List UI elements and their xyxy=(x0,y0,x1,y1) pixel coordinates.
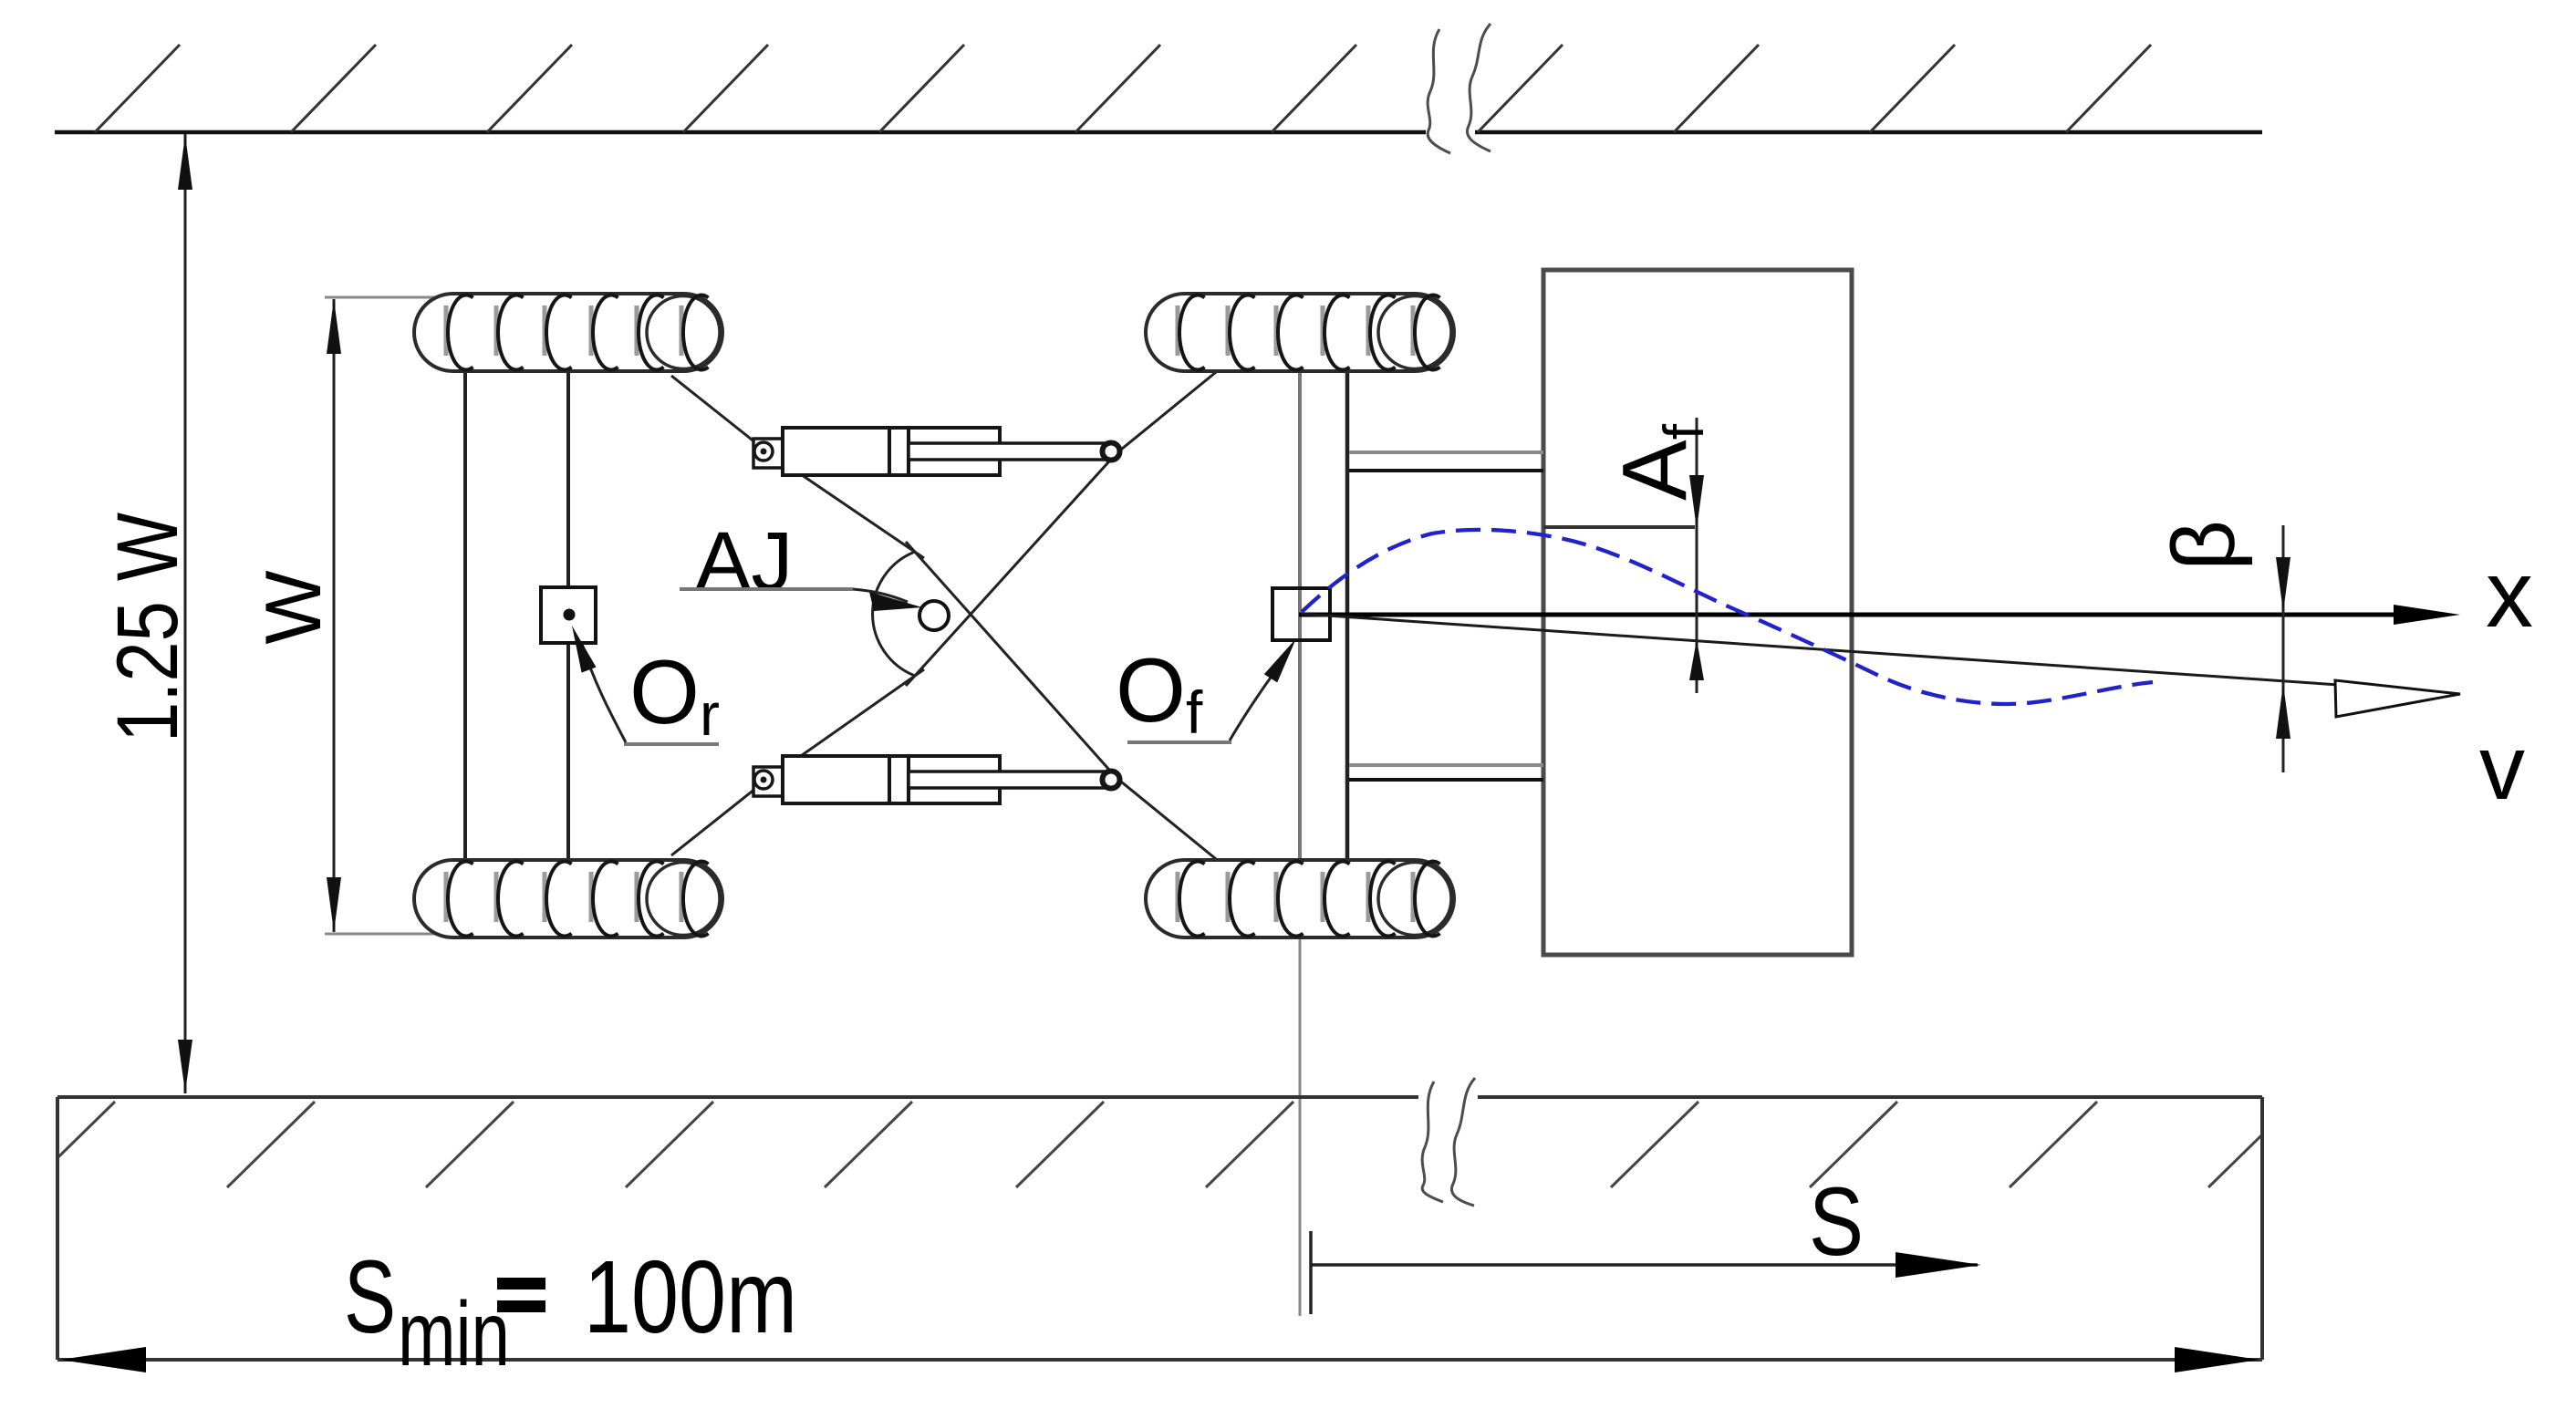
top wall hatching xyxy=(95,45,2151,132)
front frame rail bottom xyxy=(906,542,1220,863)
AJ underline xyxy=(680,587,853,591)
tire front bottom xyxy=(1146,860,1454,937)
S_min dimension arrows xyxy=(60,1347,146,1372)
front axle extension line to road xyxy=(1299,937,1302,1316)
svg-text:β: β xyxy=(2154,520,2253,571)
O_f leader xyxy=(1230,671,1275,741)
dimension 1.25 W arrows xyxy=(178,135,192,190)
O_r underline xyxy=(624,742,719,746)
bottom wall break mark xyxy=(1422,1078,1475,1206)
load frame bar bottom gray xyxy=(1349,763,1543,767)
pivot square O_f xyxy=(1272,588,1330,640)
steering cylinder top xyxy=(753,428,1120,475)
dimension 1.25 W line xyxy=(184,134,187,1093)
dimension A_f arrows xyxy=(1689,475,1704,529)
load frame bar bottom black xyxy=(1349,778,1543,782)
S dimension arrow xyxy=(1896,1252,1981,1278)
S dimension start tick xyxy=(1309,1231,1313,1314)
svg-text:v: v xyxy=(2479,717,2525,819)
pivot square O_r xyxy=(541,587,596,643)
load box xyxy=(1543,270,1852,955)
O_f underline xyxy=(1127,741,1231,744)
svg-text:S: S xyxy=(344,1239,396,1354)
top wall line xyxy=(55,130,2262,135)
dimension A_f line xyxy=(1696,418,1698,693)
v open arrow xyxy=(2335,680,2460,717)
peak reference line xyxy=(1543,525,1695,529)
S dimension line xyxy=(1311,1263,1978,1267)
svg-text:min: min xyxy=(398,1283,510,1385)
svg-text:W: W xyxy=(250,570,338,644)
tire rear bottom xyxy=(414,860,722,937)
tire front top xyxy=(1146,294,1454,371)
x-axis xyxy=(1299,613,2399,617)
svg-text:100m: 100m xyxy=(584,1239,797,1354)
svg-text:x: x xyxy=(2486,542,2533,647)
load frame bar top gray xyxy=(1349,451,1543,454)
rear axle beam lines xyxy=(463,371,467,860)
svg-text:AJ: AJ xyxy=(695,515,793,608)
O_r leader xyxy=(582,644,626,742)
load frame bar top black xyxy=(1349,469,1543,472)
dimension W extension lines xyxy=(325,296,440,299)
rear frame rail top xyxy=(671,376,924,558)
rear frame rail bottom xyxy=(671,669,924,855)
svg-text:S: S xyxy=(1809,1166,1864,1276)
articulation joint AJ circle xyxy=(919,601,949,630)
v direction line xyxy=(1301,614,2339,685)
front axle beam lines xyxy=(1298,371,1302,860)
bottom wall hatching xyxy=(27,1102,2296,1187)
dimension beta arrows xyxy=(2276,557,2290,612)
steering cylinder bottom xyxy=(753,756,1120,803)
dimension W line xyxy=(333,299,336,932)
bottom wall top edge xyxy=(57,1095,2262,1099)
tire rear top xyxy=(414,294,722,371)
svg-text:1.25 W: 1.25 W xyxy=(99,513,196,742)
bottom wall left edge xyxy=(56,1097,59,1360)
bottom wall bottom edge / S_min dimension line xyxy=(57,1358,2262,1362)
top wall break mark xyxy=(1428,24,1491,153)
AJ leader xyxy=(853,589,908,602)
articulation nose arc xyxy=(873,552,915,676)
bottom wall right edge xyxy=(2260,1097,2264,1360)
front frame rail top xyxy=(906,368,1220,686)
dimension beta line xyxy=(2282,525,2285,772)
dimension W arrows xyxy=(327,299,341,354)
blue trajectory xyxy=(1302,530,2153,704)
